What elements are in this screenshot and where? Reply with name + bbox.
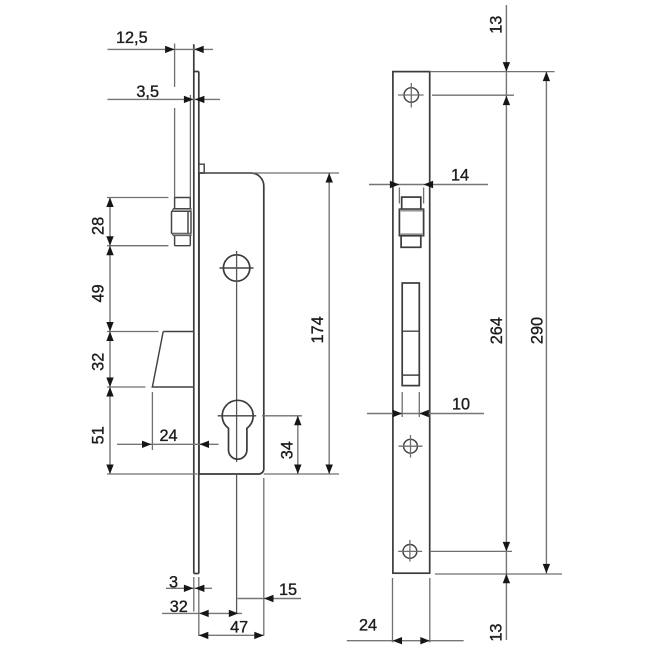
dimension 47 xyxy=(199,618,264,639)
follower hub hole xyxy=(220,255,254,281)
svg-text:32: 32 xyxy=(90,353,108,371)
top screw hole xyxy=(398,83,424,108)
latch roller body (front view) xyxy=(399,209,423,236)
dimension 32 (bottom backset) xyxy=(162,598,242,617)
svg-text:15: 15 xyxy=(279,581,297,599)
faceplate front view outline xyxy=(393,72,430,574)
latch bolt neck upper (side view) xyxy=(175,198,191,209)
euro cylinder profile hole xyxy=(218,400,257,459)
deadbolt lever trapezoid xyxy=(152,332,194,388)
svg-text:12,5: 12,5 xyxy=(116,29,148,47)
bottom hole extension xyxy=(430,550,512,552)
dimension 51 xyxy=(90,387,114,474)
svg-text:3: 3 xyxy=(169,574,178,592)
svg-text:3,5: 3,5 xyxy=(136,83,159,101)
dimension 13 top xyxy=(488,16,511,72)
dimension 3 (plate thickness bottom) xyxy=(166,574,212,637)
svg-text:28: 28 xyxy=(90,217,108,235)
latch roller upper housing (front view) xyxy=(402,197,421,209)
svg-text:290: 290 xyxy=(528,317,546,344)
lock case body (side view) xyxy=(199,173,264,474)
dimension 13 bottom xyxy=(487,574,510,642)
bolt window cutout xyxy=(402,283,419,386)
dimension 10 xyxy=(367,392,484,417)
latch head body xyxy=(172,212,192,234)
dimension 28 xyxy=(90,198,114,246)
dimension 24 (right view bottom) xyxy=(347,578,464,644)
dimension 49 xyxy=(90,246,114,332)
svg-text:10: 10 xyxy=(452,396,470,414)
plate bottom extension xyxy=(435,573,562,575)
latch head top chamfer band xyxy=(172,209,192,212)
svg-text:13: 13 xyxy=(488,16,506,34)
extension lines left column xyxy=(107,198,198,475)
svg-text:24: 24 xyxy=(159,427,177,445)
svg-text:264: 264 xyxy=(488,317,506,344)
dimension 32 left xyxy=(90,332,114,388)
svg-text:32: 32 xyxy=(170,598,188,616)
dimension 15 xyxy=(238,478,302,636)
dimension line x506 (13 / 264 / 13) xyxy=(505,5,507,640)
left dimension column line xyxy=(109,198,111,475)
top hole extension xyxy=(432,94,514,96)
dimension 12,5 xyxy=(108,29,214,198)
dimension 14 xyxy=(369,166,488,203)
svg-text:51: 51 xyxy=(90,426,108,444)
bottom screw hole xyxy=(398,540,422,562)
svg-text:34: 34 xyxy=(278,441,296,459)
dimension 3,5 xyxy=(108,83,221,198)
dimension 174 xyxy=(205,173,340,474)
latch roller lower housing (front view) xyxy=(401,236,421,248)
svg-text:13: 13 xyxy=(487,624,505,642)
middle screw hole xyxy=(399,435,423,458)
latch bolt neck lower (side view) xyxy=(175,236,191,246)
svg-text:47: 47 xyxy=(230,618,248,636)
faceplate edge (side view) xyxy=(194,44,199,573)
vertical centerline through case xyxy=(236,251,238,614)
latch head bottom chamfer band xyxy=(172,233,192,236)
dimension 290 xyxy=(528,72,550,574)
top edge extension right view xyxy=(430,71,555,73)
svg-text:14: 14 xyxy=(451,166,469,184)
top tab on case xyxy=(199,164,204,173)
dimension 34 (left view) xyxy=(262,416,339,474)
svg-text:49: 49 xyxy=(90,284,108,302)
svg-text:24: 24 xyxy=(359,617,377,635)
dimension 24 (cylinder backset) xyxy=(117,392,219,450)
dimension 264 xyxy=(488,96,510,552)
svg-text:174: 174 xyxy=(309,316,327,343)
